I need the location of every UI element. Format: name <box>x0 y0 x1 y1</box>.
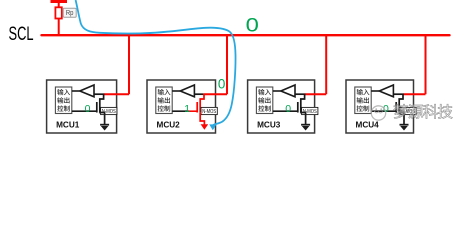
MCU3 N-MOS gate bar <box>297 102 299 113</box>
MCU2 N-MOS drain wire <box>200 94 204 113</box>
MCU3 N-MOS label <box>302 107 318 114</box>
MCU4 I/O control block 输入输出控制 <box>355 87 371 114</box>
MCU2 current arrow to ground <box>201 124 209 130</box>
MCU4 input buffer wire <box>371 90 379 92</box>
MCU2 pin node wire <box>194 93 204 95</box>
svg-text:MCU1: MCU1 <box>56 121 80 130</box>
MCU2 box <box>147 80 216 133</box>
wire drop from SCL bus to MCU1 <box>128 35 130 94</box>
MCU2 gate wire black part <box>172 110 188 112</box>
MCU4 gate wire <box>371 110 396 112</box>
wire SCL bus <box>42 34 450 36</box>
MCU4 pin node wire <box>393 93 403 95</box>
svg-text:0: 0 <box>285 103 291 115</box>
svg-text:Rp: Rp <box>66 10 74 18</box>
MCU4 box <box>346 80 414 133</box>
MCU1 gate wire <box>72 110 97 112</box>
power rail VDD <box>51 0 68 3</box>
MCU1 I/O control block 输入输出控制 <box>55 87 71 114</box>
MCU1 ground <box>100 124 109 126</box>
MCU1 input buffer U1 <box>80 85 94 97</box>
MCU4 input buffer U4 <box>379 85 393 97</box>
MCU4 N-MOS label <box>400 107 416 114</box>
MCU1 box <box>47 80 117 133</box>
MCU3 pin node wire <box>295 93 305 95</box>
MCU3 gate wire <box>273 110 298 112</box>
MCU1 input buffer wire <box>72 90 80 92</box>
MCU2 source wire to ground red conducting <box>200 112 204 125</box>
MCU2 N-MOS label <box>201 107 217 114</box>
svg-text:1: 1 <box>184 103 190 115</box>
cyan signal flow path from Rp pull-up through SCL bus into MCU2 <box>76 0 236 125</box>
MCU1 N-MOS label <box>101 107 117 114</box>
svg-text:MCU4: MCU4 <box>356 121 380 130</box>
wire drop from SCL bus to MCU4 <box>425 35 427 94</box>
MCU2 block <box>147 35 227 133</box>
MCU3 input buffer U3 <box>281 85 295 97</box>
MCU2 N-MOS gate bar <box>196 102 198 113</box>
MCU3 input buffer wire <box>273 90 281 92</box>
MCU3 source wire <box>301 112 306 124</box>
MCU2 input buffer U2 <box>180 85 194 97</box>
watermark text 梦源科技 <box>394 104 453 118</box>
resistor value label Rp <box>63 8 76 17</box>
MCU4 red wire from SCL pin <box>403 93 426 95</box>
MCU3 block <box>248 35 327 133</box>
MCU1 block <box>47 35 129 133</box>
wire resistor to SCL bus <box>58 19 60 36</box>
MCU4 N-MOS gate bar <box>395 102 397 113</box>
MCU3 N-MOS drain wire <box>301 94 305 113</box>
MCU3 box <box>248 80 315 133</box>
MCU4 ground <box>400 124 409 126</box>
MCU3 I/O control block 输入输出控制 <box>256 87 272 114</box>
MCU2 gate wire red part <box>189 110 198 112</box>
svg-text:0: 0 <box>246 14 259 36</box>
MCU2 I/O control block 输入输出控制 <box>156 87 172 114</box>
wire drop from SCL bus to MCU2 <box>226 35 228 94</box>
MCU3 ground <box>301 124 310 126</box>
MCU4 block <box>346 35 426 133</box>
svg-text:N-MOS: N-MOS <box>202 109 216 114</box>
resistor Rp body <box>55 7 61 18</box>
watermark logo circle <box>371 106 385 120</box>
svg-text:0: 0 <box>85 103 91 115</box>
svg-text:MCU2: MCU2 <box>157 121 181 130</box>
MCU1 source wire <box>100 112 105 124</box>
MCU1 red wire from SCL pin <box>104 93 129 95</box>
MCU2 input buffer wire <box>172 90 180 92</box>
wire VDD to resistor <box>58 2 60 8</box>
cyan signal arrowhead at MCU2 ground <box>209 124 216 130</box>
MCU3 red wire from SCL pin <box>305 93 327 95</box>
svg-text:MCU3: MCU3 <box>257 121 281 130</box>
MCU4 N-MOS drain wire <box>399 94 403 113</box>
MCU2 red wire from SCL pin <box>204 93 227 95</box>
MCU1 N-MOS gate bar <box>96 102 98 113</box>
MCU1 N-MOS drain wire <box>100 94 104 113</box>
svg-text:SCL: SCL <box>9 22 34 44</box>
MCU4 source wire <box>399 112 404 124</box>
wire drop from SCL bus to MCU3 <box>325 35 327 94</box>
svg-text:0: 0 <box>218 77 225 92</box>
MCU1 pin node wire <box>94 93 104 95</box>
